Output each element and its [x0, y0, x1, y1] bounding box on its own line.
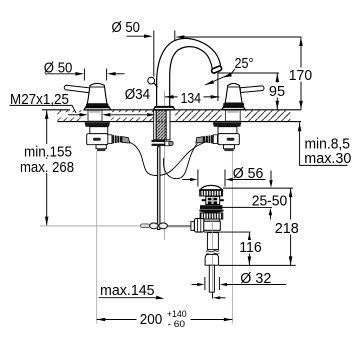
pop-up window holes: [208, 198, 218, 204]
dim Ø50 left handle lines: [45, 73, 79, 75]
svg-text:max.30: max.30: [304, 151, 351, 167]
right valve slot: [227, 138, 235, 141]
arrowheads: [45, 34, 303, 321]
spout column right edge: [169, 75, 171, 107]
right handle body: [225, 83, 242, 103]
arrow 25-50 bottom: [269, 208, 272, 216]
svg-text:200: 200: [140, 312, 163, 328]
arrow Ø34 right: [102, 113, 110, 117]
svg-text:134: 134: [181, 91, 201, 107]
thin waste pipe: [209, 265, 214, 292]
pop-up rod upper section: [154, 110, 157, 140]
svg-text:95: 95: [269, 84, 285, 100]
rod clamp band B: [152, 144, 165, 146]
dim Ø32 lines: [192, 284, 199, 286]
right valve tailpiece: [224, 145, 235, 149]
dim max145 right tail: [218, 297, 226, 299]
wire: right handle centerline: [231, 151, 233, 324]
deck thickness leader: [300, 122, 348, 165]
svg-text:Ø 32: Ø 32: [240, 271, 271, 287]
lever housing collar: [191, 222, 195, 231]
arrow min155 top: [45, 110, 49, 119]
arrow 25deg lower: [205, 80, 214, 85]
pop-up pull rod: [157, 147, 160, 230]
dim Ø50 left handle ext lines: [83, 69, 85, 81]
spout shank plain column: [166, 110, 170, 140]
svg-text:170: 170: [289, 68, 312, 84]
svg-text:- 60: - 60: [168, 319, 186, 330]
svg-text:M27x1,25: M27x1,25: [10, 92, 69, 108]
pop-up side pin left: [202, 199, 206, 201]
left flexible hose: [130, 141, 209, 175]
rod clamp screw knob: [169, 141, 173, 145]
arrow 134 right: [211, 95, 220, 99]
label max 268: [18, 159, 77, 176]
svg-text:Ø 56: Ø 56: [233, 166, 264, 182]
dim Ø56 lines: [182, 179, 192, 181]
svg-text:25°: 25°: [235, 56, 254, 72]
arrow 200 left: [97, 318, 106, 322]
arrow 170 bottom: [299, 101, 303, 110]
arrow Ø32 left: [197, 283, 204, 286]
ext line outlet: [217, 73, 219, 102]
svg-text:Ø 50: Ø 50: [112, 20, 141, 36]
arrow 170 top: [299, 37, 303, 46]
deck top line: [42, 109, 301, 111]
label 25-50: [250, 193, 289, 210]
pop-up ribbed collar: [200, 213, 223, 219]
left hose nipple: [122, 137, 130, 143]
right valve flange: [213, 122, 242, 126]
left handle body: [87, 83, 107, 103]
left valve block: [87, 134, 108, 145]
left valve body: [90, 127, 108, 134]
left hose fitting collar: [108, 135, 112, 144]
arrow max145 left end: [156, 296, 165, 300]
arrow 200 right: [224, 318, 233, 322]
svg-text:Ø34: Ø34: [125, 87, 151, 103]
pop-up neck band: [203, 219, 220, 221]
pop-up side pin right: [220, 199, 224, 201]
pop-up flange: [200, 205, 222, 209]
wire: drain centerline: [211, 197, 213, 292]
arrow Ø34 rod pointer: [147, 113, 155, 117]
arrow Ø56 right: [225, 178, 232, 181]
lever rod right stub: [204, 231, 251, 233]
ref line outlet to 95: [218, 72, 279, 74]
pipe sleeve: [205, 254, 219, 265]
svg-text:25-50: 25-50: [252, 193, 287, 209]
dim Ø56 ext lines: [197, 170, 199, 187]
arrow 25-50 top: [269, 180, 272, 188]
ref line pipe sleeve bottom: [219, 264, 296, 266]
arrow 25deg upper: [223, 73, 232, 78]
spout inner curve: [170, 47, 213, 75]
spout thread shank below deck: [156, 110, 166, 140]
label min 155: [22, 144, 75, 160]
right valve body: [218, 127, 237, 134]
rod link left: [150, 223, 159, 229]
arrow 134 left: [165, 95, 174, 99]
spout shank through deck: [154, 110, 170, 121]
arrow Ø50 spout left: [144, 34, 153, 38]
ref line apex to 170: [177, 36, 302, 38]
right flexible hose: [163, 144, 197, 179]
right handle shank through deck: [225, 110, 240, 121]
dim 25-50 arrows lines: [270, 171, 272, 183]
arrow 218 top: [289, 189, 293, 198]
dim 170 line: [300, 37, 302, 110]
M27 leader: [10, 105, 77, 113]
svg-text:116: 116: [239, 240, 262, 256]
right hose fitting ribs: [204, 135, 213, 143]
right handle lever: [240, 86, 264, 93]
dim 218 line: [290, 188, 292, 265]
dim Ø34 lines: [68, 114, 80, 116]
rod link right: [159, 223, 168, 229]
arrow Ø34 left: [80, 113, 88, 117]
wire: spout centerline: [163, 91, 165, 240]
pop-up knurl band: [200, 190, 223, 196]
svg-text:max.145: max.145: [100, 283, 155, 299]
dim Ø32 ext lines: [204, 277, 206, 290]
left valve flange: [85, 122, 110, 126]
spout aerator end cap: [211, 65, 222, 73]
arrow 95 bottom: [276, 101, 280, 110]
dim 200 line: [97, 319, 233, 321]
left handle escutcheon top edge: [85, 106, 109, 108]
left handle base ring: [86, 104, 109, 107]
arrow Ø32 right: [220, 283, 227, 286]
dim max145 underline: [99, 297, 158, 299]
pipe break squiggle: [206, 251, 219, 255]
right handle base ring: [223, 103, 244, 106]
left handle lever: [64, 85, 90, 93]
spout column left edge: [156, 81, 158, 107]
arrow min155 bottom: [45, 217, 49, 226]
ref line flange bottom: [219, 206, 272, 208]
right hose nipple: [196, 137, 203, 143]
arrow Ø50 spout right: [176, 35, 185, 39]
dim Ø50 spout ext lines: [153, 31, 155, 77]
svg-text:max. 268: max. 268: [20, 160, 74, 176]
dim 95 line: [276, 73, 278, 110]
rod coupling capsule: [140, 224, 149, 228]
label 218: [273, 220, 301, 238]
label 170: [287, 68, 314, 85]
left valve slot: [93, 138, 101, 141]
drain body: [204, 221, 221, 230]
left hose fitting ribs: [112, 135, 121, 143]
arrow 218 bottom: [289, 256, 293, 265]
pull knob stem: [154, 83, 158, 87]
lever housing nut: [194, 219, 204, 233]
label 116: [238, 240, 265, 256]
pull knob: [148, 77, 155, 84]
dim 134 line: [165, 96, 219, 98]
svg-text:Ø 50: Ø 50: [44, 61, 73, 77]
spout escutcheon top edge: [155, 106, 174, 108]
pop-up lower band: [199, 210, 223, 213]
deck hatching: [58, 110, 291, 121]
svg-text:218: 218: [275, 221, 299, 237]
arrow deck thickness: [298, 123, 302, 132]
25deg leader: [205, 69, 235, 85]
wire: pull-rod reference line: [40, 225, 141, 227]
deck bottom line: [58, 121, 302, 123]
dim Ø50 spout line left: [127, 35, 147, 37]
right handle escutcheon top edge: [223, 106, 244, 108]
arrow Ø50 handle right: [107, 72, 116, 76]
lever housing ribs: [198, 219, 201, 232]
dim 116 line: [248, 233, 250, 266]
arrow 116 top: [248, 233, 252, 242]
right hose fitting collar: [213, 135, 217, 144]
pop-up window box: [206, 196, 220, 204]
label 95: [268, 83, 288, 100]
arrow max145 right: [213, 296, 220, 299]
left handle shank through deck: [88, 110, 102, 121]
right handle escutcheon: [222, 107, 245, 110]
left valve tail end: [97, 149, 106, 151]
dim min155 line: [46, 110, 48, 225]
ext line drain center: [212, 292, 214, 298]
wire: pop-up lever rod: [141, 225, 200, 227]
pop-up waste dome: [200, 185, 223, 190]
arrow 95 top: [276, 73, 280, 82]
spout outer curve: [157, 38, 221, 81]
arrow Ø56 left: [190, 178, 197, 181]
right handle cap seam: [227, 86, 239, 88]
arrow Ø50 handle left: [75, 72, 84, 76]
left handle cap seam: [90, 86, 105, 88]
rod clamp screw: [165, 141, 169, 146]
label 134: [178, 91, 204, 107]
ref line flange top: [223, 187, 293, 189]
right valve tail end: [224, 149, 233, 151]
right valve block: [218, 134, 239, 145]
wire: left handle centerline: [96, 151, 98, 324]
left handle escutcheon: [84, 107, 111, 110]
arrow 116 bottom: [248, 256, 252, 265]
drain tailpipe: [207, 233, 218, 250]
left valve tailpiece: [96, 145, 106, 149]
svg-text:min.155: min.155: [24, 144, 72, 160]
spout escutcheon: [154, 107, 175, 110]
rod clamp band A: [152, 140, 165, 142]
